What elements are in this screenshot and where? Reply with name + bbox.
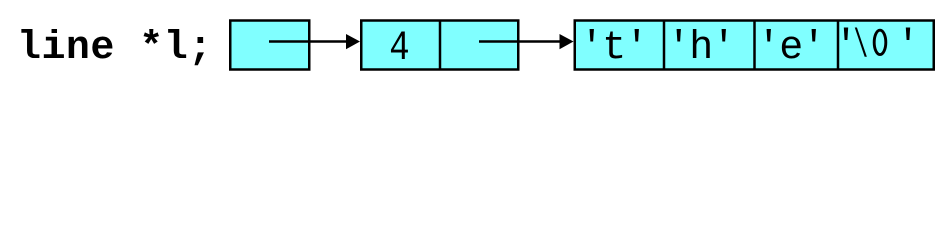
arrowhead into struct box	[346, 34, 360, 49]
svg-text:'t': 't'	[580, 26, 648, 71]
divider: between 't' and 'h' cells	[663, 21, 666, 70]
box: char array "the"	[575, 21, 934, 70]
box: pointer variable l	[230, 21, 309, 70]
svg-text:line *l;: line *l;	[17, 26, 213, 71]
divider: between 'e' and '\0' cells	[837, 21, 840, 70]
svg-text:4: 4	[389, 25, 409, 72]
svg-text:': '	[896, 25, 920, 70]
svg-text:'h': 'h'	[667, 26, 735, 71]
wire: arrow shaft from l to struct	[269, 40, 347, 43]
wire: arrow shaft from struct pointer cell to char array	[479, 40, 560, 43]
box: struct (length cell + pointer cell)	[361, 21, 518, 70]
svg-text:\: \	[853, 23, 868, 69]
divider: struct cell separator	[439, 21, 442, 70]
svg-text:'e': 'e'	[757, 26, 825, 71]
divider: between 'h' and 'e' cells	[753, 21, 756, 70]
value label '\0' (cell 3)	[834, 23, 920, 70]
arrowhead into char array	[560, 34, 574, 49]
